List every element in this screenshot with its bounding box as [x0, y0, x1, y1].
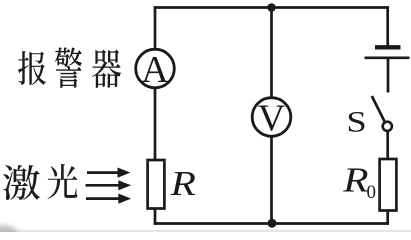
- laser arrow 3: [86, 194, 131, 204]
- scan smudge bottom-left corner: [0, 225, 17, 237]
- wire left branch middle: [154, 88, 157, 161]
- svg-text:0: 0: [367, 182, 377, 203]
- wire left branch upper: [154, 6, 157, 49]
- voltmeter U2 body: [252, 98, 291, 137]
- wire top bus: [154, 6, 389, 9]
- svg-text:S: S: [346, 106, 366, 139]
- resistor R0 body: [380, 159, 397, 211]
- svg-text:A: A: [141, 49, 169, 91]
- wire middle branch upper: [270, 8, 273, 98]
- laser arrow 2: [86, 180, 132, 190]
- battery BT1 positive plate (long thin): [365, 56, 410, 59]
- switch S pivot: [383, 122, 392, 131]
- node bottom junction: [268, 219, 277, 228]
- battery BT1 negative plate (short thick): [375, 45, 401, 49]
- wire right branch upper: [386, 6, 389, 45]
- ammeter U1 body: [136, 49, 175, 88]
- switch S lever: [372, 96, 385, 122]
- text label 警 (alarm char 2): [55, 47, 82, 88]
- text label 激 (laser char 1): [3, 165, 40, 200]
- wire left branch lower: [154, 209, 157, 225]
- wire right branch lower: [386, 211, 389, 225]
- text label 报 (alarm char 1): [18, 51, 46, 85]
- node top junction: [267, 3, 276, 12]
- wire battery to switch: [387, 58, 390, 93]
- scan shadow bottom edge: [0, 230, 411, 232]
- svg-text:R: R: [170, 165, 196, 203]
- svg-text:V: V: [258, 97, 286, 139]
- resistor R body: [148, 160, 165, 209]
- svg-text:R: R: [342, 161, 368, 199]
- text label 光 (laser char 2): [48, 164, 78, 199]
- text label 器 (alarm char 3): [92, 50, 121, 89]
- wire switch to R0: [386, 131, 389, 160]
- wire bottom bus: [154, 222, 389, 225]
- laser arrow 1: [87, 168, 130, 178]
- wire middle branch lower: [270, 136, 273, 223]
